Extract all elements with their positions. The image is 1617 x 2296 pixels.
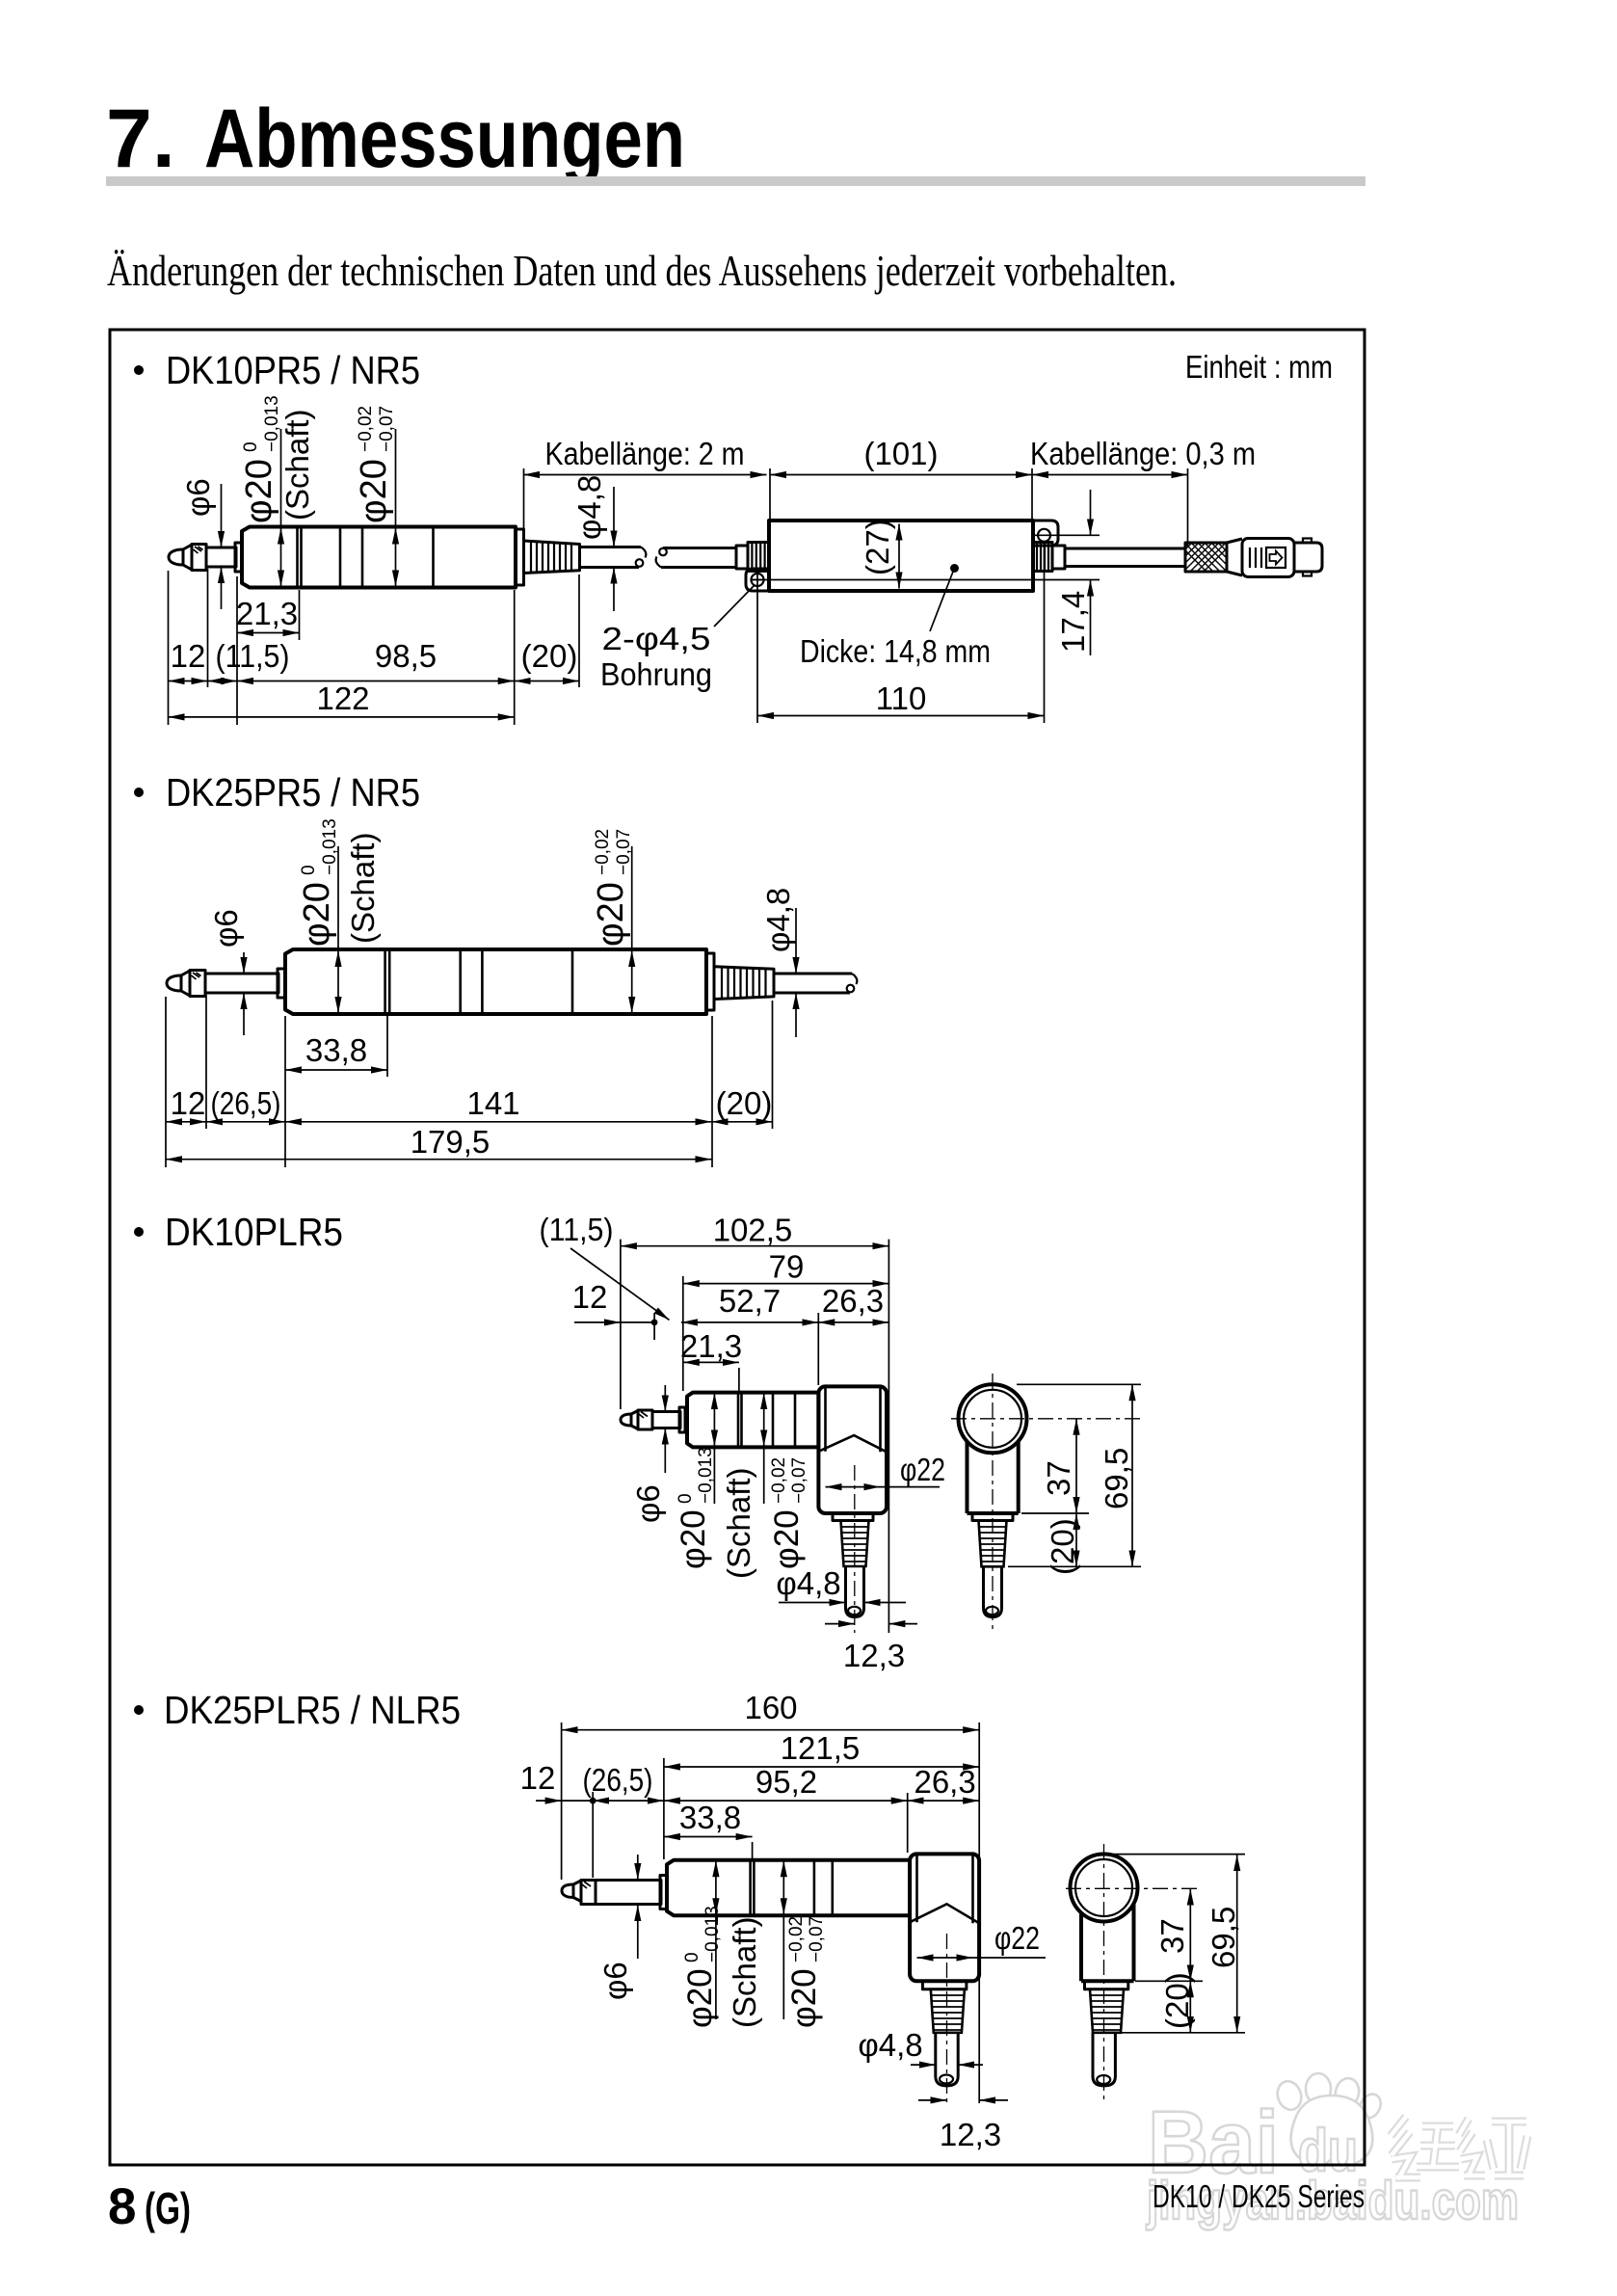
svg-text:160: 160 — [744, 1690, 797, 1725]
svg-text:(Schaft): (Schaft) — [727, 1916, 762, 2028]
svg-text:Einheit : mm: Einheit : mm — [1185, 349, 1333, 385]
d1 collar hatch — [194, 547, 203, 553]
d3 side view inner circle — [964, 1390, 1021, 1448]
d4 dim 12 — [520, 1760, 596, 1878]
d4 dim 12,3 — [918, 2100, 1008, 2152]
d1 connector arrow glyph — [1270, 551, 1283, 565]
d3 dim (11,5) leader — [540, 1212, 670, 1320]
d1 dim (101) — [770, 436, 1032, 520]
d2 barrel section line 2 — [459, 949, 462, 1014]
svg-text:8: 8 — [108, 2178, 136, 2235]
d3 dim phi20 tol2 below — [764, 1393, 809, 1569]
d4 side horizontal centerline — [1066, 1887, 1198, 1889]
svg-text:12,3: 12,3 — [843, 1638, 905, 1673]
d3 side view threaded boss — [979, 1521, 1007, 1567]
d1 dim Kabellaenge 2 m — [523, 436, 767, 529]
d4 side view inner circle — [1075, 1859, 1132, 1916]
d3 dim (20) — [1045, 1513, 1080, 1575]
d4 thread lines — [931, 1995, 964, 2030]
svg-text:φ4,8: φ4,8 — [760, 888, 796, 952]
svg-text:37: 37 — [1154, 1918, 1190, 1954]
d1 barrel section line 4 — [432, 527, 435, 588]
d3 side view body — [968, 1442, 1019, 1514]
d3 head chevron — [818, 1435, 887, 1452]
svg-text:102,5: 102,5 — [713, 1213, 793, 1248]
svg-text:DK10PR5 / NR5: DK10PR5 / NR5 — [166, 348, 420, 392]
svg-text:φ20: φ20 — [768, 1509, 806, 1569]
d2 probe tip collar — [190, 971, 205, 997]
d4 side vertical centerline — [1103, 1844, 1105, 2103]
d1 connector body — [1242, 539, 1294, 577]
svg-text:(20): (20) — [1045, 1518, 1080, 1575]
svg-text:φ20: φ20 — [681, 1968, 719, 2028]
d3 collar hatch — [639, 1412, 648, 1419]
d4 dim 37 — [1154, 1889, 1190, 1982]
d4 head bottom extension — [1135, 1980, 1203, 1982]
d2 cable break curl — [852, 974, 857, 984]
watermark hanzi jing — [1391, 2117, 1459, 2179]
d3 side lower stem — [984, 1566, 1002, 1616]
d2 collar hatch — [192, 973, 201, 979]
d1 mounting tab top-right — [1033, 521, 1058, 546]
svg-text:φ6: φ6 — [180, 478, 216, 517]
d4 dim (20) — [1159, 1972, 1195, 2032]
d2 dim phi4,8 — [760, 888, 796, 1037]
d2 cable segment — [774, 974, 852, 993]
svg-text:(26,5): (26,5) — [583, 1762, 653, 1798]
d4 dim phi22 — [917, 1920, 1047, 1958]
d3 threaded boss — [841, 1521, 869, 1567]
svg-text:−0,02: −0,02 — [356, 406, 376, 452]
svg-text:(Schaft): (Schaft) — [279, 409, 315, 521]
d2 probe contact tip ball — [167, 975, 181, 991]
d3 circle top extension — [1017, 1383, 1141, 1385]
d2 barrel section line 4 — [571, 949, 574, 1014]
svg-text:DK10PLR5: DK10PLR5 — [165, 1210, 343, 1254]
d4 threaded boss — [931, 1989, 965, 2033]
d1 screw hole top-right — [1038, 529, 1050, 542]
d4 probe contact tip ball — [562, 1884, 573, 1898]
watermark hanzi yan — [1459, 2119, 1527, 2177]
svg-text:−0,02: −0,02 — [593, 829, 613, 875]
d1 box outlet ribs — [1033, 543, 1052, 572]
d3 stem centerline — [854, 1465, 856, 1633]
d1 dim 12 — [169, 681, 208, 682]
d1 step ring — [235, 543, 242, 572]
svg-text:−0,07: −0,07 — [789, 1457, 809, 1504]
svg-text:12: 12 — [171, 638, 206, 674]
d3 dim phi20 schaft below — [675, 1393, 756, 1579]
d2 bottom extension lines — [166, 995, 773, 1167]
svg-text:φ4,8: φ4,8 — [858, 2027, 922, 2063]
svg-text:179,5: 179,5 — [411, 1124, 490, 1160]
svg-text:17,4: 17,4 — [1055, 591, 1091, 653]
d4 stem tip ball — [940, 2075, 953, 2084]
svg-text:−0,07: −0,07 — [807, 1916, 827, 1962]
svg-text:φ4,8: φ4,8 — [776, 1565, 840, 1601]
d4 dim phi4,8 — [858, 2027, 983, 2065]
d4 probe tip cone — [573, 1881, 581, 1902]
d3 dim 37 — [1041, 1419, 1076, 1513]
d4 dim 69,5 — [1206, 1855, 1241, 2033]
d2 dim (26,5) — [206, 1121, 285, 1123]
d3 main barrel — [687, 1393, 818, 1448]
d3 dim 102,5 — [621, 1213, 889, 1634]
d2 dim phi6 — [208, 909, 244, 1035]
d2 dim (20) — [712, 1121, 773, 1123]
svg-text:φ20: φ20 — [785, 1968, 823, 2028]
svg-text:37: 37 — [1041, 1460, 1076, 1496]
svg-text:−0,07: −0,07 — [614, 829, 634, 875]
d4 side thread lines — [1090, 1995, 1123, 2030]
d3 dim phi22 — [826, 1452, 946, 1487]
d4 head chevron — [910, 1904, 979, 1923]
d1 cable boot collar — [516, 529, 524, 585]
svg-text:26,3: 26,3 — [914, 1764, 975, 1800]
d1 dim (20) — [515, 681, 579, 682]
svg-text:26,3: 26,3 — [822, 1283, 884, 1319]
svg-text:(11,5): (11,5) — [540, 1212, 614, 1247]
d4 dim 160 — [562, 1690, 980, 2103]
d3 barrel section line 1b — [740, 1393, 743, 1448]
d4 stem centerline — [946, 1934, 948, 2103]
d2 step ring — [278, 969, 285, 998]
svg-text:(Schaft): (Schaft) — [721, 1467, 756, 1579]
d1 braid hatch — [1156, 543, 1254, 572]
svg-text:69,5: 69,5 — [1099, 1448, 1134, 1509]
svg-text:(20): (20) — [1159, 1972, 1195, 2029]
svg-text:φ20: φ20 — [591, 882, 631, 947]
d4 head inner edge right — [971, 1855, 974, 1923]
d3 dim phi4,8 — [776, 1565, 906, 1603]
d3 thread bottom extension — [1008, 1565, 1141, 1567]
d3 right-angle head — [818, 1386, 887, 1513]
d4 circle top extension — [1111, 1854, 1245, 1855]
svg-text:φ6: φ6 — [208, 909, 244, 948]
svg-text:−0,013: −0,013 — [696, 1447, 716, 1504]
svg-text:DK10 / DK25 Series: DK10 / DK25 Series — [1153, 2178, 1365, 2214]
d1 probe tip cone — [183, 545, 192, 570]
svg-text:12: 12 — [171, 1085, 206, 1121]
svg-text:12: 12 — [572, 1279, 608, 1315]
d1 barrel section line 1a — [296, 527, 299, 588]
page heading: 7. Abmessungen — [106, 93, 685, 185]
d2 dim 179,5 — [166, 1159, 712, 1161]
d1 braided sleeve — [1185, 543, 1227, 572]
d1 mounting tab bottom-left — [746, 569, 769, 591]
d1 end cap nubs — [1303, 539, 1312, 544]
d1 barrel section line 2 — [339, 527, 342, 588]
svg-text:121,5: 121,5 — [781, 1730, 861, 1766]
d1 cable left segment — [580, 547, 642, 568]
svg-text:φ4,8: φ4,8 — [571, 475, 607, 540]
d4 right-angle head — [910, 1854, 979, 1981]
d3 lower stem — [846, 1566, 864, 1617]
d1 dim 17,4 — [1055, 490, 1091, 655]
d3 stem tip ball — [848, 1607, 861, 1615]
d2 dim 33,8 — [285, 1016, 387, 1077]
d2 dim 141 — [285, 1121, 712, 1123]
svg-text:φ20: φ20 — [675, 1509, 712, 1569]
d4 barrel section line 1b — [753, 1860, 755, 1915]
d1 dim 98,5 — [237, 681, 515, 682]
svg-text:(G): (G) — [145, 2183, 191, 2233]
d3 probe thin shaft — [652, 1412, 680, 1428]
svg-text:(26,5): (26,5) — [211, 1085, 281, 1121]
d4 side view outer circle — [1071, 1855, 1138, 1922]
d4 side view bottom lip — [1085, 1981, 1128, 1989]
svg-text:φ6: φ6 — [630, 1484, 666, 1523]
d4 head inner edge left — [915, 1855, 918, 1922]
d4 step ring — [660, 1876, 667, 1909]
svg-text:Abmessungen: Abmessungen — [204, 93, 685, 185]
d1 dim phi20 tol2 — [354, 406, 397, 587]
svg-text:0: 0 — [241, 441, 261, 452]
d4 probe tip collar — [581, 1881, 596, 1905]
d1 output cable — [1065, 548, 1185, 567]
svg-text:DK25PLR5 / NLR5: DK25PLR5 / NLR5 — [164, 1688, 461, 1732]
d4 dim (26,5) — [593, 1800, 664, 1802]
d4 dim 26,3 — [908, 1800, 980, 1802]
gray rule under heading — [106, 176, 1365, 186]
d4 side view threaded boss — [1090, 1989, 1124, 2033]
d1 dim (27) — [860, 519, 899, 588]
d3 dim 12 — [572, 1279, 658, 1340]
d3 side view bottom lip — [972, 1513, 1013, 1521]
d4 main barrel — [667, 1860, 910, 1915]
d4 lower stem — [936, 2033, 958, 2086]
d1 top screw line — [1035, 534, 1100, 536]
d1 probe thin shaft — [206, 547, 236, 567]
d2 probe thin shaft — [205, 974, 278, 993]
d1 connector arrow box — [1266, 547, 1286, 568]
svg-text:φ22: φ22 — [994, 1920, 1040, 1956]
d3 head inner edge right — [879, 1388, 882, 1452]
d4 dim phi20 schaft below — [681, 1860, 762, 2028]
d4 collar hatch — [582, 1882, 591, 1888]
d1 dim phi4,8 — [571, 475, 614, 611]
d4 head bottom lip — [922, 1981, 967, 1989]
d4 side stem tip ball — [1097, 2075, 1110, 2084]
d4 probe thin shaft — [596, 1881, 661, 1905]
d3 dim 21,3 — [680, 1328, 742, 1391]
svg-text:(Schaft): (Schaft) — [345, 832, 381, 944]
svg-text:12,3: 12,3 — [940, 2117, 1001, 2152]
d4 barrel section line 1a — [749, 1860, 752, 1915]
d1 barrel section line 3 — [361, 527, 364, 588]
Baidu watermark — [1146, 2073, 1527, 2230]
svg-text:φ22: φ22 — [900, 1452, 945, 1487]
svg-text:33,8: 33,8 — [305, 1032, 367, 1068]
svg-text:122: 122 — [316, 681, 369, 716]
d1 screw hole bottom-left — [752, 574, 764, 586]
d3 probe tip cone — [631, 1411, 638, 1429]
d1 dim phi20 schaft — [239, 395, 315, 586]
d1 connector bars — [1250, 547, 1261, 568]
d1 preamp box body — [769, 521, 1033, 591]
d2 dim phi20 schaft — [297, 818, 381, 1013]
d1 dim 110 — [757, 542, 1045, 723]
svg-text:Bohrung: Bohrung — [600, 656, 712, 692]
d2 cable boot body — [714, 967, 774, 1000]
d2 boot ribs — [722, 967, 766, 999]
d2 dim 12 — [166, 1121, 206, 1123]
d4 title bullet — [134, 1705, 144, 1715]
d1 probe tip collar — [192, 545, 206, 571]
d1 probe contact tip ball — [169, 549, 183, 565]
d4 thread bottom extension — [1121, 2032, 1245, 2034]
d3 barrel section line 1a — [737, 1393, 740, 1448]
svg-text:−0,02: −0,02 — [786, 1916, 807, 1962]
d1 cable right break curl — [656, 557, 661, 568]
d3 dim phi6 — [630, 1385, 666, 1523]
d1 dim 122 — [169, 716, 515, 718]
d1 dim Kabellaenge 0,3 m — [1030, 436, 1256, 546]
d3 side thread lines — [979, 1527, 1006, 1562]
svg-text:2-φ4,5: 2-φ4,5 — [602, 621, 711, 656]
d3 dim 26,3 — [818, 1322, 888, 1323]
svg-text:Kabellänge: 0,3 m: Kabellänge: 0,3 m — [1030, 436, 1256, 471]
d1 boot ribs — [531, 542, 571, 574]
d3 dim 12,3 — [825, 1624, 917, 1673]
d3 dim 69,5 — [1099, 1384, 1134, 1566]
d4 side view body — [1081, 1904, 1134, 1981]
d2 main barrel — [285, 949, 706, 1014]
svg-text:52,7: 52,7 — [719, 1283, 781, 1319]
d3 title bullet — [134, 1227, 144, 1237]
d3 dim 79 — [683, 1248, 889, 1391]
d1 connector end cap — [1294, 543, 1322, 572]
watermark paw toes — [1274, 2078, 1305, 2113]
svg-text:(11,5): (11,5) — [216, 638, 290, 674]
svg-text:98,5: 98,5 — [375, 638, 437, 674]
d3 side horizontal centerline — [951, 1418, 1141, 1420]
d2 probe tip cone — [181, 971, 190, 996]
d3 head bottom lip — [833, 1513, 873, 1521]
d3 dim 52,7 — [817, 1313, 819, 1385]
d1 box inlet ribs — [748, 543, 769, 572]
d1 barrel section line 1b — [300, 527, 303, 588]
d2 barrel section line 1b — [388, 949, 391, 1014]
svg-text:79: 79 — [769, 1248, 805, 1284]
d1 plate edge line through box — [751, 579, 1100, 581]
svg-text:0: 0 — [299, 865, 319, 875]
svg-text:Änderungen der technischen Dat: Änderungen der technischen Daten und des… — [107, 247, 1177, 295]
d2 barrel section line 1a — [384, 949, 386, 1014]
d2 barrel section line 3 — [481, 949, 484, 1014]
d2 dim phi20 tol2 — [591, 829, 634, 1013]
d4 barrel section line 3 — [831, 1860, 834, 1915]
d4 side lower stem — [1093, 2033, 1115, 2086]
svg-text:69,5: 69,5 — [1206, 1907, 1241, 1968]
d1 cable boot body — [524, 541, 580, 574]
d1 dim (11,5) — [208, 681, 238, 682]
svg-text:φ20: φ20 — [239, 459, 279, 523]
d3 barrel section line 2 — [772, 1393, 775, 1448]
d1 title bullet — [134, 365, 144, 375]
svg-text:0: 0 — [676, 1493, 696, 1504]
d3 head bottom extension — [1021, 1512, 1089, 1514]
d3 barrel section line 3 — [794, 1393, 797, 1448]
d1 label Dicke: 14,8 mm — [800, 564, 991, 669]
d4 dim 121,5 — [664, 1730, 979, 1859]
d2 cable boot collar — [706, 953, 714, 1010]
d1 cable left break curl — [641, 547, 646, 558]
svg-text:φ20: φ20 — [297, 882, 337, 947]
d1 dim phi6 — [180, 478, 222, 609]
footer: page number 8 (G) — [108, 2178, 191, 2235]
d4 dim phi6 — [597, 1855, 638, 2000]
svg-text:0: 0 — [682, 1952, 702, 1962]
svg-text:−0,013: −0,013 — [702, 1906, 723, 1962]
svg-text:(27): (27) — [860, 519, 895, 575]
d3 step ring — [679, 1407, 685, 1432]
svg-text:95,2: 95,2 — [755, 1764, 817, 1800]
svg-text:33,8: 33,8 — [679, 1800, 741, 1835]
d4 dim phi20 tol2 below — [783, 1860, 827, 2028]
svg-text:110: 110 — [876, 681, 927, 716]
svg-text:21,3: 21,3 — [236, 596, 298, 631]
d4 dim 95,2 — [664, 1764, 908, 1853]
svg-text:DK25PR5 / NR5: DK25PR5 / NR5 — [166, 770, 420, 814]
d1 dim 21,3 — [236, 576, 300, 640]
d1 main barrel — [242, 527, 516, 588]
d3 side stem tip ball — [986, 1607, 998, 1615]
d1 label 2-phi4,5 Bohrung — [600, 585, 755, 692]
d3 side view outer circle — [959, 1384, 1027, 1453]
d3 probe contact tip ball — [621, 1414, 631, 1426]
svg-text:Dicke: 14,8 mm: Dicke: 14,8 mm — [800, 633, 991, 669]
svg-text:(20): (20) — [521, 638, 578, 674]
svg-text:21,3: 21,3 — [680, 1328, 742, 1364]
d3 probe tip collar — [638, 1410, 652, 1429]
d3 thread lines — [841, 1527, 868, 1562]
svg-text:−0,07: −0,07 — [377, 406, 397, 452]
d1 cable right segment — [661, 548, 736, 568]
svg-text:Kabellänge: 2 m: Kabellänge: 2 m — [545, 436, 745, 471]
svg-text:7.: 7. — [106, 93, 175, 185]
d1 bottom extension lines — [169, 569, 580, 725]
svg-text:(101): (101) — [863, 436, 938, 471]
svg-text:φ6: φ6 — [597, 1962, 633, 2000]
d1 box outlet collar — [1052, 546, 1065, 569]
svg-text:φ20: φ20 — [354, 459, 394, 523]
d4 dim 33,8 — [664, 1800, 753, 1859]
d4 barrel section line 2 — [813, 1860, 816, 1915]
watermark paw pad — [1291, 2096, 1373, 2166]
d1 box inlet collar — [736, 546, 748, 569]
svg-text:141: 141 — [466, 1085, 519, 1121]
d3 head inner edge left — [824, 1388, 827, 1452]
content frame box — [110, 330, 1365, 2165]
d2 title bullet — [134, 788, 144, 797]
d3 side vertical centerline — [992, 1374, 994, 1633]
svg-text:−0,02: −0,02 — [769, 1457, 789, 1504]
svg-text:12: 12 — [520, 1760, 556, 1796]
svg-text:(20): (20) — [716, 1085, 773, 1121]
svg-text:−0,013: −0,013 — [320, 818, 340, 875]
d1 connector taper — [1227, 539, 1242, 575]
